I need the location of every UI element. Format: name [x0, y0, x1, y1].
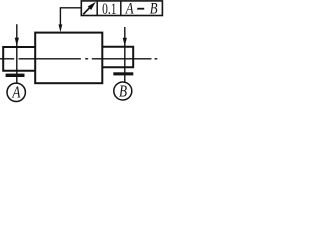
feature control frame	[81, 1, 162, 16]
svg-text:B: B	[150, 0, 158, 18]
datum B indicator line	[124, 27, 126, 82]
leader arrowhead	[59, 24, 63, 32]
datum B thick bar	[113, 72, 133, 75]
datum A thick bar	[6, 74, 25, 77]
frame divider 1	[96, 1, 98, 16]
left journal	[3, 47, 35, 71]
datum reference dash	[137, 8, 144, 10]
frame divider 2	[120, 1, 122, 16]
datum B arrowhead	[123, 38, 127, 47]
svg-text:A: A	[11, 83, 21, 102]
datum B circle	[114, 82, 132, 100]
right journal	[102, 47, 133, 68]
svg-text:B: B	[119, 83, 127, 101]
shaft large cylinder	[35, 33, 102, 84]
svg-text:A: A	[125, 0, 134, 18]
leader line from frame	[60, 8, 81, 25]
svg-text:0.1: 0.1	[102, 1, 116, 18]
datum A circle	[7, 83, 25, 101]
circular runout symbol	[83, 2, 96, 14]
datum A indicator line	[16, 24, 18, 83]
datum A arrowhead	[15, 38, 19, 47]
centerline axis	[0, 58, 157, 60]
